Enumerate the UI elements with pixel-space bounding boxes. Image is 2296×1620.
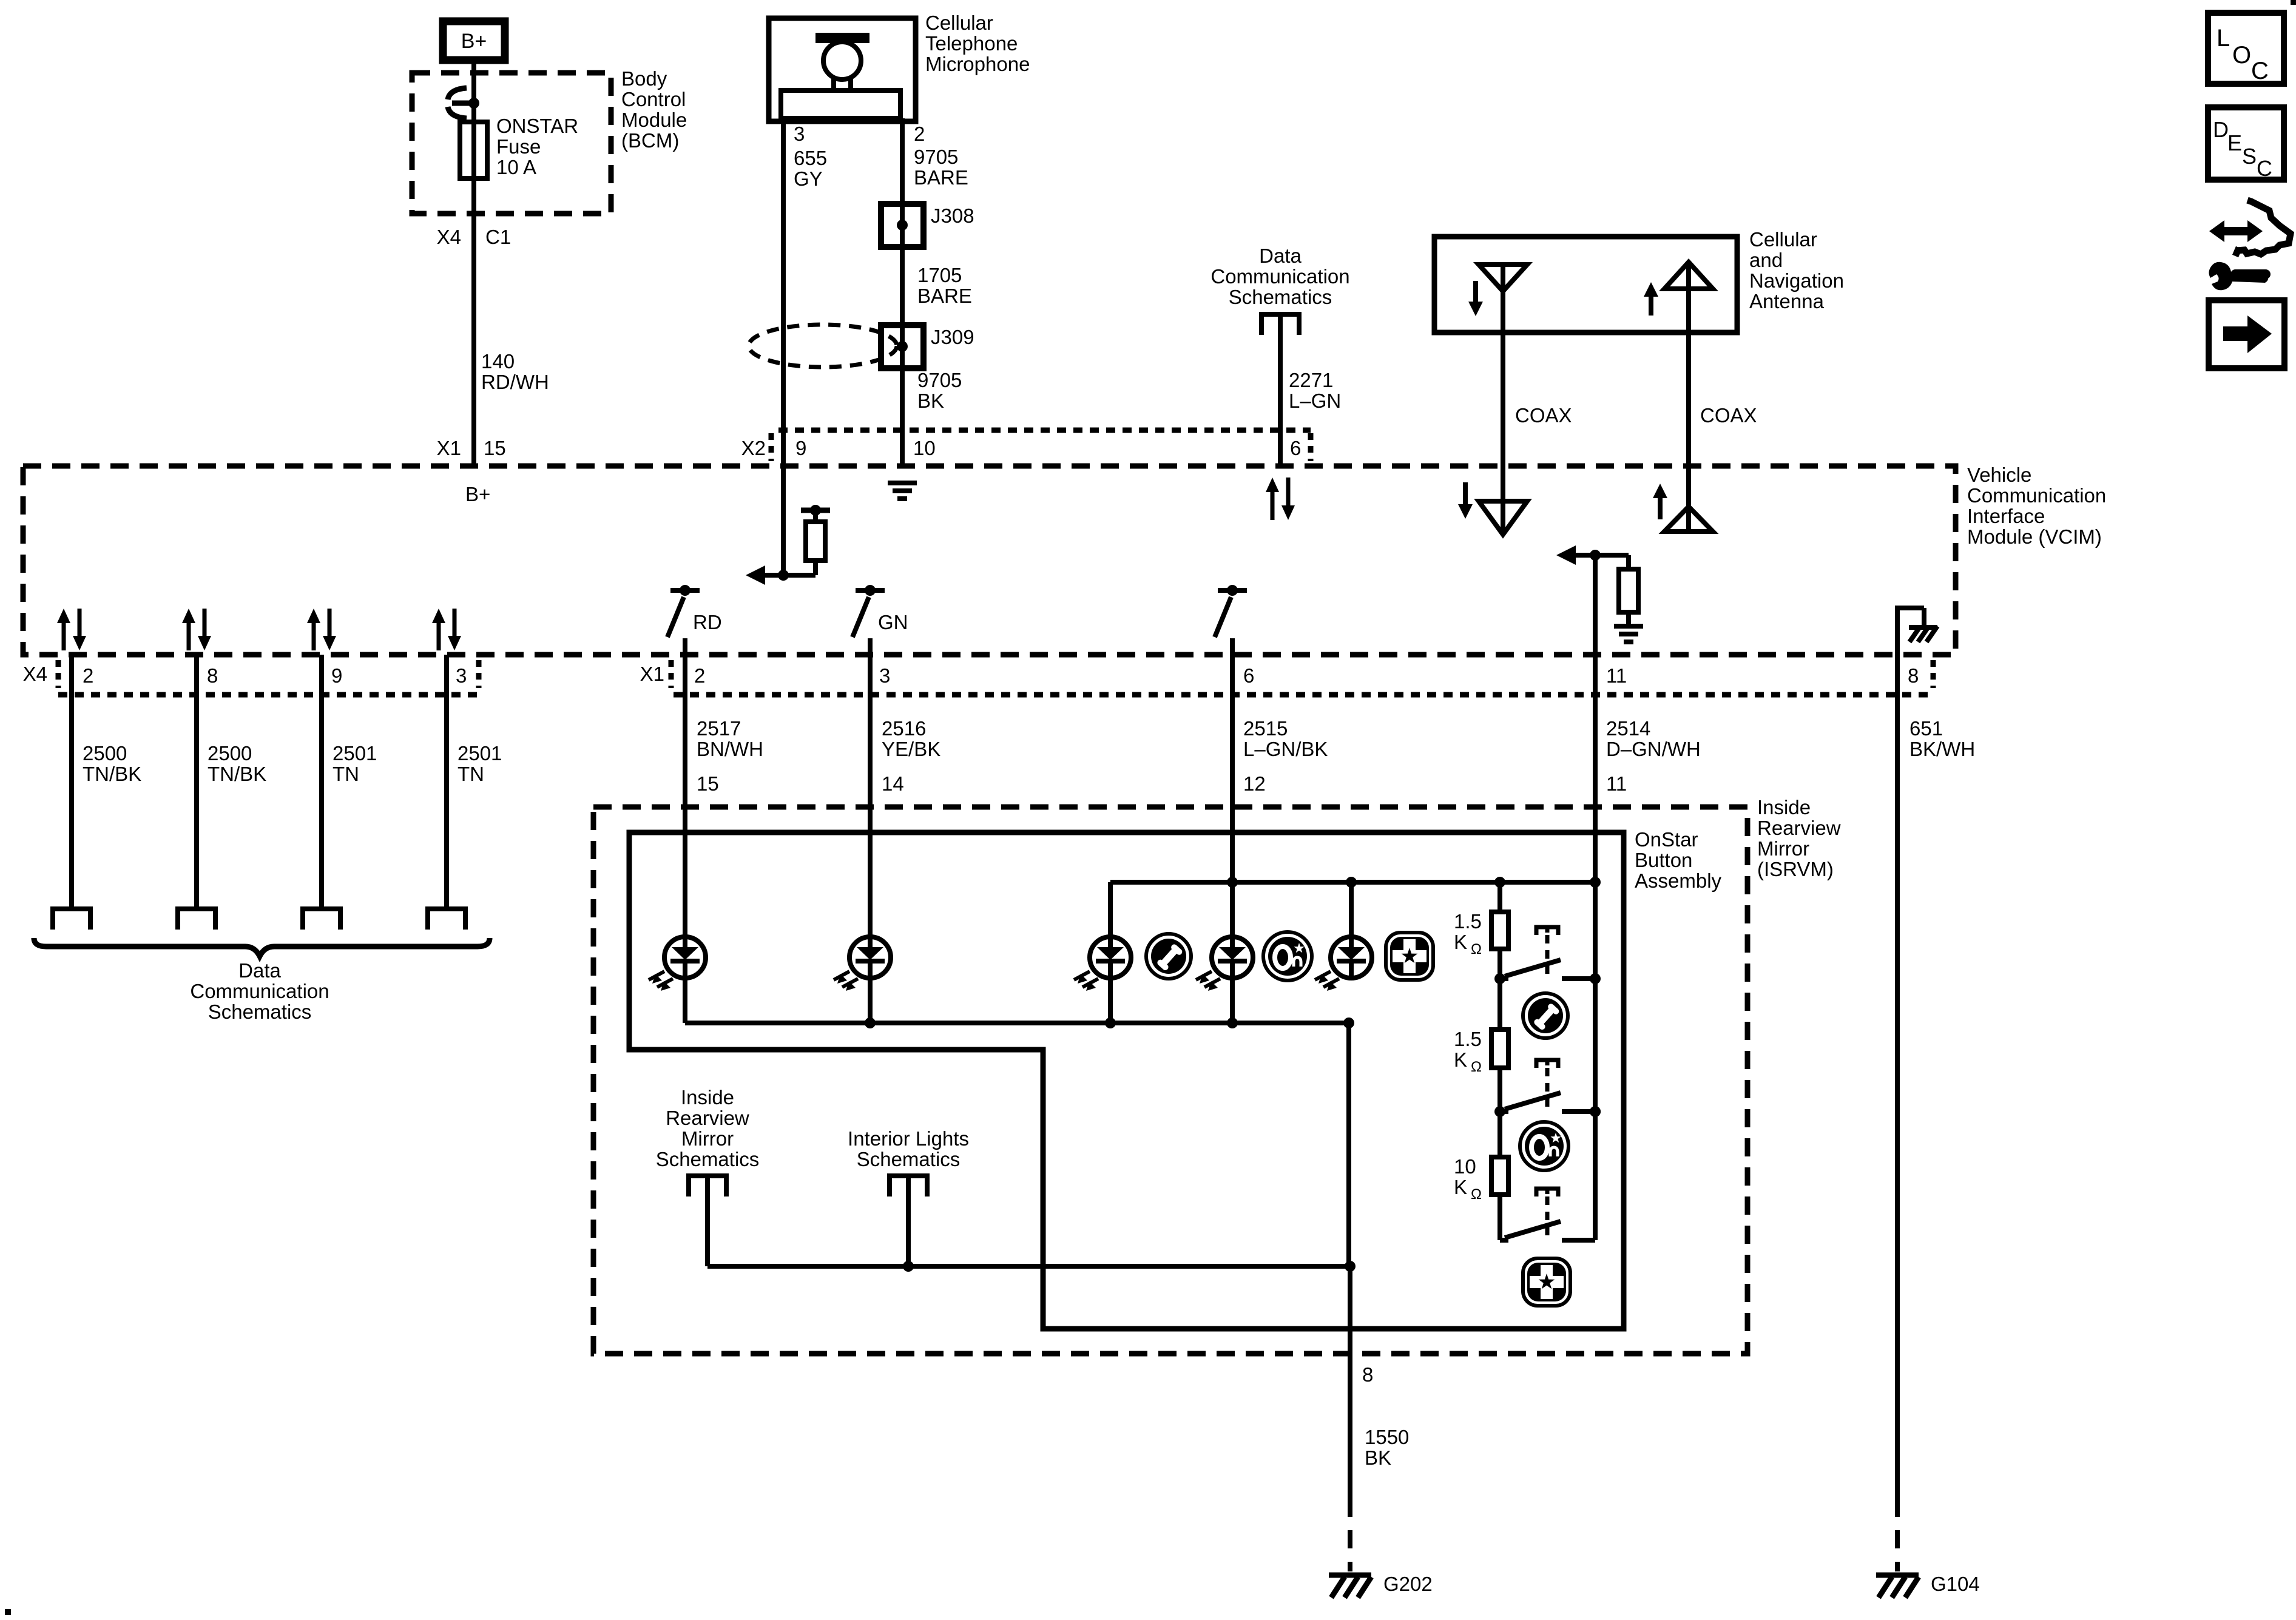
svg-text:Control: Control xyxy=(621,88,686,110)
svg-text:X4: X4 xyxy=(23,663,47,685)
wire 2500 TN/BK xyxy=(194,655,199,909)
OnStar Button Assembly box xyxy=(629,832,1624,1329)
svg-text:Communication: Communication xyxy=(1210,265,1349,288)
svg-text:Cellular: Cellular xyxy=(1749,228,1817,251)
svg-text:15: 15 xyxy=(697,772,719,795)
wire 2515 L-GN/BK xyxy=(1230,655,1235,937)
svg-text:O: O xyxy=(2232,42,2251,69)
svg-text:Communication: Communication xyxy=(1967,484,2106,507)
svg-text:Inside: Inside xyxy=(681,1086,734,1109)
hot at all times symbol xyxy=(448,88,467,100)
svg-text:K: K xyxy=(1454,1176,1467,1198)
LED 3 wire xyxy=(1108,978,1113,1023)
switch GN xyxy=(856,588,885,593)
svg-text:2501: 2501 xyxy=(333,742,377,764)
svg-text:S: S xyxy=(2242,144,2257,169)
LED 2 xyxy=(849,937,891,978)
svg-text:K: K xyxy=(1454,931,1467,953)
svg-text:140: 140 xyxy=(481,350,515,373)
svg-text:K: K xyxy=(1454,1048,1467,1071)
connector X2 dotted line xyxy=(778,428,1311,433)
svg-text:X1: X1 xyxy=(640,663,664,685)
svg-text:and: and xyxy=(1749,249,1783,271)
wire 9705 BARE xyxy=(900,118,905,466)
svg-text:RD/WH: RD/WH xyxy=(481,371,549,393)
svg-text:Vehicle: Vehicle xyxy=(1967,464,2031,486)
svg-text:2271: 2271 xyxy=(1289,369,1333,391)
svg-text:2: 2 xyxy=(83,664,93,687)
svg-text:Mirror: Mirror xyxy=(1757,837,1809,860)
svg-text:(BCM): (BCM) xyxy=(621,129,679,152)
svg-text:1.5: 1.5 xyxy=(1454,1028,1482,1050)
fuse ONSTAR 10A xyxy=(460,122,487,178)
coax wire left xyxy=(1501,265,1505,466)
svg-text:X2: X2 xyxy=(741,437,766,459)
svg-text:X4: X4 xyxy=(437,226,461,248)
svg-text:L–GN/BK: L–GN/BK xyxy=(1243,738,1328,760)
svg-text:3: 3 xyxy=(879,664,890,687)
svg-text:(ISRVM): (ISRVM) xyxy=(1757,858,1834,880)
svg-text:GN: GN xyxy=(878,611,908,633)
svg-text:651: 651 xyxy=(1909,717,1943,740)
svg-text:D: D xyxy=(2213,117,2229,142)
svg-text:E: E xyxy=(2227,130,2242,155)
svg-text:Ω: Ω xyxy=(1471,941,1482,957)
push switch 2 (OnStar) xyxy=(1536,1060,1558,1068)
wire LED return to pin 8 xyxy=(1346,1023,1351,1266)
svg-text:Antenna: Antenna xyxy=(1749,290,1825,312)
svg-text:BK: BK xyxy=(917,390,944,412)
svg-text:8: 8 xyxy=(207,664,218,687)
svg-text:YE/BK: YE/BK xyxy=(882,738,940,760)
serial data arrows pair 1 xyxy=(62,621,66,650)
svg-text:BARE: BARE xyxy=(917,285,972,307)
svg-text:COAX: COAX xyxy=(1700,404,1757,427)
next-page arrow box xyxy=(2209,300,2284,368)
splice J309 xyxy=(881,325,923,368)
svg-text:Mirror: Mirror xyxy=(681,1127,734,1150)
ground for mic shield (inside VCIM) xyxy=(888,481,917,485)
svg-text:12: 12 xyxy=(1243,772,1266,795)
page corner mark xyxy=(2291,0,2296,5)
wire 2501 TN xyxy=(444,655,449,909)
svg-text:OnStar: OnStar xyxy=(1635,828,1698,851)
svg-text:2516: 2516 xyxy=(882,717,926,740)
svg-text:Microphone: Microphone xyxy=(925,53,1030,75)
switch (white) xyxy=(1218,588,1247,593)
emergency cross icon (LED row) xyxy=(1386,933,1433,980)
LED 1 xyxy=(664,937,706,978)
svg-text:2: 2 xyxy=(914,123,925,145)
microphone symbol xyxy=(815,33,869,43)
diagnostic icon (arrow, part outline, wrench) xyxy=(2222,227,2250,235)
svg-text:C1: C1 xyxy=(485,226,511,248)
twisted pair ellipse xyxy=(749,325,897,367)
cellular and navigation antenna box xyxy=(1434,237,1737,332)
coax wire right xyxy=(1686,289,1691,466)
svg-text:C: C xyxy=(2257,156,2272,181)
VCIM antenna receive symbol xyxy=(1501,466,1505,535)
wire 651 BK/WH xyxy=(1895,655,1900,1499)
phone icon (button) xyxy=(1523,993,1568,1038)
svg-text:2500: 2500 xyxy=(208,742,252,764)
svg-text:10: 10 xyxy=(1454,1155,1476,1178)
VCIM antenna transmit symbol xyxy=(1686,466,1691,532)
DESC legend box xyxy=(2208,107,2284,180)
emergency cross icon (button) xyxy=(1523,1258,1570,1306)
wire 655 GY xyxy=(781,118,786,466)
svg-text:Body: Body xyxy=(621,67,667,90)
svg-text:J309: J309 xyxy=(931,326,974,348)
resistor 1.5 K (2) xyxy=(1491,1030,1508,1068)
svg-text:C: C xyxy=(2251,58,2269,84)
svg-text:9: 9 xyxy=(795,437,806,459)
cellular telephone microphone box xyxy=(769,18,916,121)
LED 4 xyxy=(1212,937,1253,978)
wire 12 through LED4 xyxy=(1230,882,1235,937)
svg-text:BK/WH: BK/WH xyxy=(1909,738,1975,760)
svg-text:8: 8 xyxy=(1362,1363,1373,1386)
svg-text:Ω: Ω xyxy=(1471,1059,1482,1075)
svg-text:Inside: Inside xyxy=(1757,796,1811,818)
svg-text:TN/BK: TN/BK xyxy=(83,763,141,785)
svg-text:1.5: 1.5 xyxy=(1454,910,1482,933)
svg-text:Communication: Communication xyxy=(190,980,329,1002)
svg-text:2500: 2500 xyxy=(83,742,127,764)
data link terminator xyxy=(53,909,90,930)
svg-text:Telephone: Telephone xyxy=(925,32,1018,55)
svg-text:G202: G202 xyxy=(1383,1573,1433,1595)
svg-text:G104: G104 xyxy=(1931,1573,1980,1595)
connector X1 dotted line xyxy=(674,692,1933,698)
dashed wire to G202 xyxy=(1348,1499,1352,1571)
svg-text:2517: 2517 xyxy=(697,717,741,740)
LED anode bus xyxy=(1110,880,1595,885)
svg-text:11: 11 xyxy=(1606,772,1627,795)
serial data arrows pair 3 xyxy=(312,621,316,650)
svg-text:BN/WH: BN/WH xyxy=(697,738,763,760)
svg-text:2515: 2515 xyxy=(1243,717,1288,740)
node B+ battery terminal xyxy=(443,21,505,60)
svg-text:10 A: 10 A xyxy=(496,156,536,178)
svg-text:Interface: Interface xyxy=(1967,505,2045,527)
wire 2500 TN/BK xyxy=(69,655,74,909)
connector X4 dotted line xyxy=(58,692,479,698)
svg-text:L–GN: L–GN xyxy=(1289,390,1341,412)
serial data arrows pair 4 xyxy=(437,621,441,650)
svg-text:J308: J308 xyxy=(931,204,974,227)
push switch 1 (phone) xyxy=(1536,927,1558,935)
data link terminator xyxy=(303,909,340,930)
svg-text:Data: Data xyxy=(238,959,281,982)
svg-text:2501: 2501 xyxy=(458,742,502,764)
resistor 1.5 K xyxy=(1491,912,1508,949)
svg-text:TN: TN xyxy=(333,763,359,785)
data link terminator xyxy=(428,909,465,930)
svg-text:ONSTAR: ONSTAR xyxy=(496,115,578,137)
LED cathode bus xyxy=(685,1021,1349,1025)
svg-text:TN: TN xyxy=(458,763,484,785)
Vehicle Communication Interface Module (VCIM) box xyxy=(23,466,1956,655)
svg-text:Cellular: Cellular xyxy=(925,12,993,34)
svg-text:9705: 9705 xyxy=(917,369,962,391)
svg-text:Navigation: Navigation xyxy=(1749,269,1844,292)
antenna feed arrow + resistor + ground xyxy=(1563,553,1629,558)
svg-text:15: 15 xyxy=(484,437,506,459)
wire pin 11 inside VCIM xyxy=(1593,555,1598,655)
svg-text:TN/BK: TN/BK xyxy=(208,763,266,785)
wire 2271 L-GN xyxy=(1278,314,1283,466)
svg-text:B+: B+ xyxy=(465,483,490,505)
svg-text:Schematics: Schematics xyxy=(208,1001,312,1023)
svg-text:Data: Data xyxy=(1259,245,1302,267)
svg-text:Module (VCIM): Module (VCIM) xyxy=(1967,525,2102,548)
svg-text:9: 9 xyxy=(331,664,342,687)
svg-text:L: L xyxy=(2217,25,2230,52)
wire B+ to BCM fuse xyxy=(471,64,476,466)
svg-text:11: 11 xyxy=(1606,664,1627,687)
wire mic audio inside VCIM xyxy=(781,466,786,575)
wire 2501 TN xyxy=(319,655,324,909)
OnStar icon (button) xyxy=(1520,1122,1568,1170)
svg-text:3: 3 xyxy=(794,123,805,145)
svg-text:655: 655 xyxy=(794,147,827,169)
LED 3 xyxy=(1090,937,1131,978)
antenna symbol transmit (up) xyxy=(1664,262,1713,289)
svg-text:6: 6 xyxy=(1290,437,1301,459)
svg-text:Schematics: Schematics xyxy=(857,1148,961,1170)
svg-text:Rearview: Rearview xyxy=(1757,817,1841,839)
LED 5 xyxy=(1331,937,1372,978)
wire 2517 BN/WH xyxy=(683,655,687,937)
svg-text:RD: RD xyxy=(693,611,722,633)
svg-text:9705: 9705 xyxy=(914,146,958,168)
svg-text:D–GN/WH: D–GN/WH xyxy=(1606,738,1701,760)
svg-text:8: 8 xyxy=(1908,664,1919,687)
svg-text:BK: BK xyxy=(1365,1446,1391,1469)
svg-text:COAX: COAX xyxy=(1515,404,1572,427)
splice J308 xyxy=(881,204,923,247)
right rail wire xyxy=(1593,979,1598,1240)
svg-text:Ω: Ω xyxy=(1471,1186,1482,1203)
svg-text:3: 3 xyxy=(456,664,467,687)
svg-text:GY: GY xyxy=(794,167,823,190)
illumination bus xyxy=(707,1264,1350,1269)
svg-text:10: 10 xyxy=(913,437,936,459)
termination bar xyxy=(801,508,830,513)
Body Control Module (BCM) box xyxy=(412,73,611,214)
svg-text:14: 14 xyxy=(882,772,904,795)
svg-text:Rearview: Rearview xyxy=(666,1107,749,1129)
svg-text:X1: X1 xyxy=(437,437,461,459)
svg-text:B+: B+ xyxy=(461,30,487,53)
brace data communication schematics xyxy=(34,938,490,956)
serial data arrows xyxy=(1271,490,1275,520)
wire 2516 YE/BK xyxy=(868,655,873,937)
resistor ladder rail xyxy=(1497,882,1502,912)
svg-text:Interior Lights: Interior Lights xyxy=(848,1127,969,1150)
svg-text:1705: 1705 xyxy=(917,264,962,286)
data link terminator xyxy=(178,909,215,930)
wire 2514 D-GN/WH xyxy=(1593,655,1598,979)
svg-text:1550: 1550 xyxy=(1365,1426,1409,1448)
LOC legend box xyxy=(2208,13,2284,84)
svg-text:6: 6 xyxy=(1243,664,1254,687)
svg-text:2: 2 xyxy=(694,664,705,687)
svg-text:Schematics: Schematics xyxy=(1229,286,1332,308)
VCIM internal ground (pin 8) xyxy=(1895,606,1900,655)
dashed wire to G104 xyxy=(1895,1499,1900,1571)
push switch 3 (emergency) xyxy=(1536,1189,1558,1196)
svg-text:BARE: BARE xyxy=(914,166,968,189)
svg-text:Assembly: Assembly xyxy=(1635,869,1722,892)
LED 5 wire xyxy=(1349,882,1354,937)
resistor (mic termination) xyxy=(813,510,818,522)
Inside Rearview Mirror (ISRVM) box xyxy=(593,807,1747,1354)
audio arrow line xyxy=(752,573,815,578)
OnStar icon (LED row) xyxy=(1263,932,1312,980)
svg-text:2514: 2514 xyxy=(1606,717,1650,740)
ground G104 xyxy=(1876,1573,1919,1578)
svg-text:Schematics: Schematics xyxy=(656,1148,760,1170)
svg-text:Fuse: Fuse xyxy=(496,135,541,158)
ground G202 xyxy=(1329,1573,1371,1578)
antenna symbol receive (down) xyxy=(1479,265,1527,291)
switch RD xyxy=(670,588,700,593)
serial data arrows pair 2 xyxy=(187,621,191,650)
phone icon (LED row) xyxy=(1146,934,1191,979)
svg-text:Module: Module xyxy=(621,109,687,131)
svg-text:Button: Button xyxy=(1635,849,1692,871)
resistor 10 K xyxy=(1497,1112,1502,1157)
